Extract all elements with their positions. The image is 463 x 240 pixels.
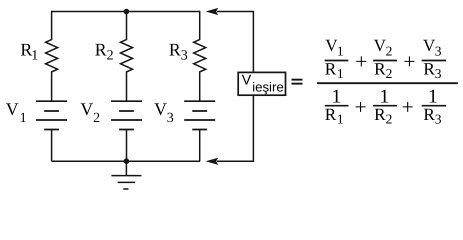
svg-text:R: R <box>423 59 435 78</box>
svg-text:3: 3 <box>435 44 442 59</box>
svg-text:+: + <box>403 50 415 74</box>
svg-text:+: + <box>355 50 367 74</box>
svg-text:R: R <box>169 40 181 60</box>
svg-text:2: 2 <box>386 44 393 59</box>
svg-text:R: R <box>325 59 337 78</box>
svg-text:+: + <box>355 95 367 119</box>
svg-text:2: 2 <box>386 111 393 126</box>
svg-text:R: R <box>95 40 107 60</box>
svg-text:V: V <box>6 99 19 119</box>
svg-text:3: 3 <box>435 66 442 81</box>
svg-text:R: R <box>374 59 386 78</box>
svg-text:3: 3 <box>167 111 174 126</box>
svg-text:1: 1 <box>337 44 344 59</box>
svg-text:R: R <box>325 105 337 124</box>
svg-text:R: R <box>423 105 435 124</box>
svg-text:3: 3 <box>435 111 442 126</box>
svg-text:1: 1 <box>337 111 344 126</box>
svg-text:2: 2 <box>93 111 100 126</box>
svg-text:1: 1 <box>31 48 38 63</box>
svg-text:1: 1 <box>337 66 344 81</box>
svg-text:V: V <box>242 73 252 89</box>
svg-text:+: + <box>402 95 414 119</box>
svg-text:1: 1 <box>20 111 27 126</box>
svg-text:2: 2 <box>386 66 393 81</box>
svg-text:V: V <box>80 99 93 119</box>
svg-text:3: 3 <box>181 48 188 63</box>
svg-text:2: 2 <box>107 48 114 63</box>
svg-text:R: R <box>374 105 386 124</box>
svg-text:ieşire: ieşire <box>252 80 284 95</box>
svg-text:V: V <box>154 99 167 119</box>
